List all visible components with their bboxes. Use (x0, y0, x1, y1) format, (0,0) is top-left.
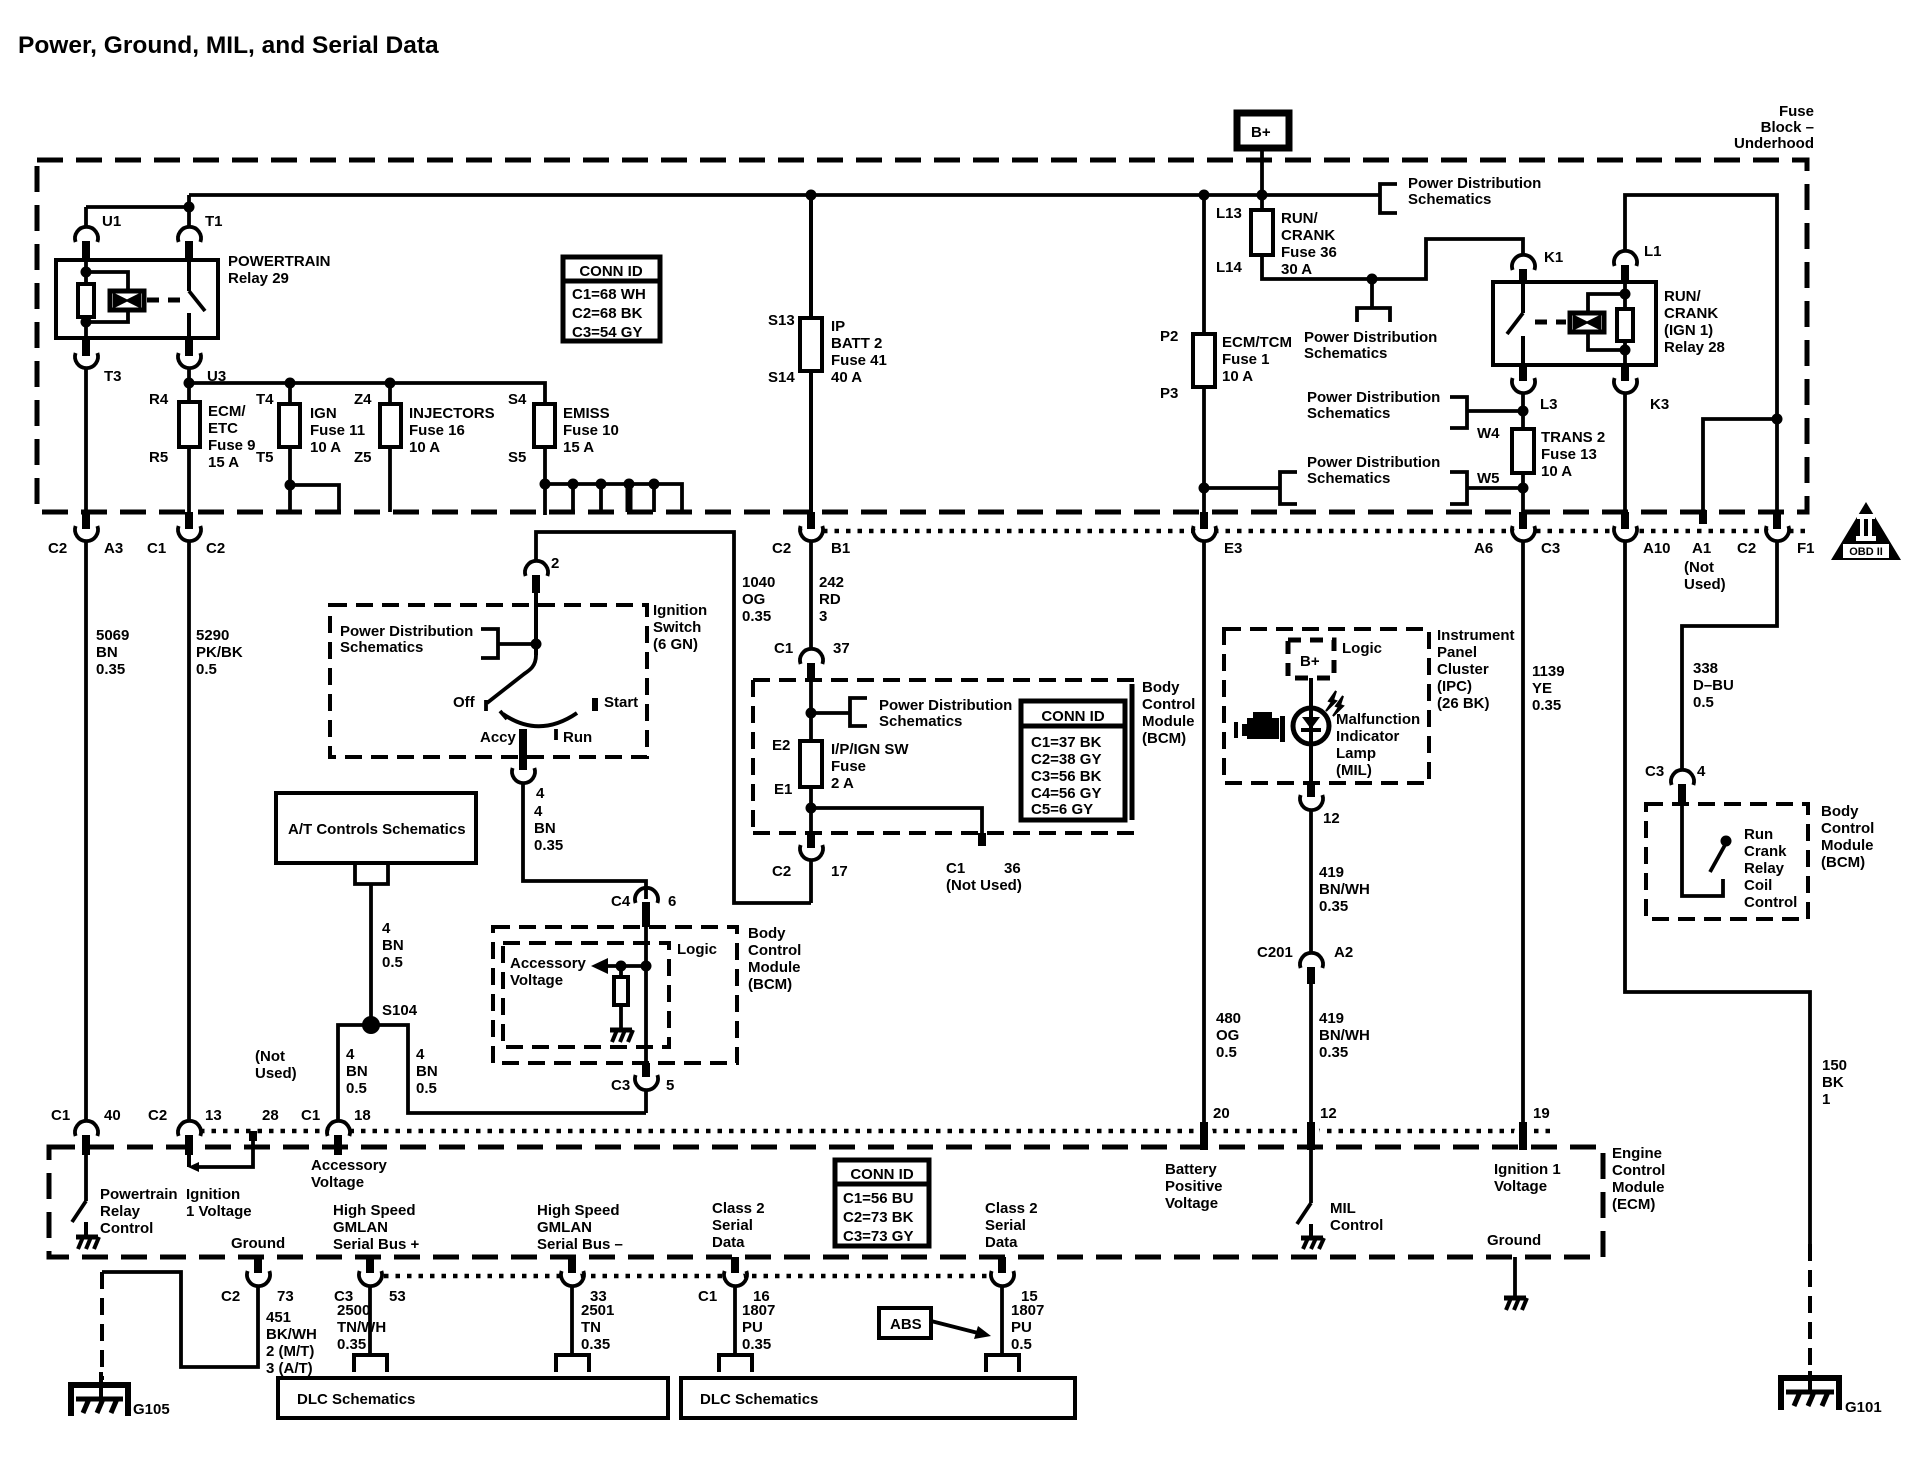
connector C3/5 (642, 1063, 650, 1077)
svg-text:Fuse 10: Fuse 10 (563, 422, 619, 439)
svg-text:PK/BK: PK/BK (196, 644, 243, 661)
IPC dashed box (1224, 629, 1429, 783)
wire T1 drop (187, 195, 191, 228)
svg-text:Power Distribution: Power Distribution (340, 623, 473, 640)
svg-text:High Speed: High Speed (537, 1202, 620, 1219)
wire A10 down to G101 (1625, 540, 1810, 1244)
connector T3 (82, 338, 90, 356)
svg-text:C2=38 GY: C2=38 GY (1031, 751, 1101, 768)
svg-text:37: 37 (833, 640, 850, 657)
svg-text:W4: W4 (1477, 425, 1500, 442)
node S104 (362, 1016, 380, 1034)
relay 28 coil (1570, 313, 1604, 332)
svg-text:Control: Control (100, 1220, 153, 1237)
svg-text:S5: S5 (508, 449, 526, 466)
svg-text:Instrument: Instrument (1437, 627, 1515, 644)
wire A3 down to ECM40 (84, 540, 88, 1122)
svg-text:S13: S13 (768, 312, 795, 329)
connector C1/37 (800, 649, 823, 664)
svg-text:OG: OG (1216, 1027, 1239, 1044)
ground (logic) (610, 1028, 632, 1033)
svg-text:Control: Control (748, 942, 801, 959)
svg-text:Fuse: Fuse (1779, 103, 1814, 120)
svg-text:RUN/: RUN/ (1664, 288, 1701, 305)
MIL control switch (1307, 1122, 1315, 1150)
wire accy down to pin4 (519, 729, 527, 770)
svg-text:20: 20 (1213, 1105, 1230, 1122)
relay 29 actuator dashes (147, 298, 180, 303)
svg-text:0.35: 0.35 (742, 1336, 771, 1353)
BCM logic inner dashed box (503, 943, 669, 1047)
ignition switch lever (487, 655, 536, 703)
wire A/T to S104 (369, 884, 373, 1025)
relay 28 switch (1521, 282, 1525, 313)
svg-text:53: 53 (389, 1288, 406, 1305)
svg-text:0.35: 0.35 (96, 661, 125, 678)
svg-text:DLC Schematics: DLC Schematics (700, 1391, 818, 1408)
svg-text:1 Voltage: 1 Voltage (186, 1203, 252, 1220)
svg-text:BK/WH: BK/WH (266, 1326, 317, 1343)
connector C2/F1 (1773, 512, 1781, 529)
connector K3 (1621, 365, 1629, 381)
connector C2/17 (807, 835, 815, 848)
connector L1 (1614, 251, 1637, 266)
svg-text:0.5: 0.5 (346, 1080, 367, 1097)
relay 29 coil resistor (84, 260, 88, 338)
connector C2/13 (ECM) (178, 1121, 201, 1136)
svg-text:RD: RD (819, 591, 841, 608)
relay 28 RUN/CRANK box (1493, 282, 1656, 365)
wire dashed to G101 (1808, 1244, 1812, 1378)
svg-text:Fuse: Fuse (831, 758, 866, 775)
svg-text:10 A: 10 A (310, 439, 341, 456)
svg-text:Power Distribution: Power Distribution (879, 697, 1012, 714)
ground pin below ECM right (1513, 1257, 1517, 1298)
ABS arrow (931, 1321, 978, 1333)
svg-text:Fuse 16: Fuse 16 (409, 422, 465, 439)
OBD II symbol (1831, 502, 1901, 560)
connector E3 (1200, 512, 1208, 529)
svg-text:CONN ID: CONN ID (579, 263, 643, 280)
svg-text:C1=56 BU: C1=56 BU (843, 1190, 913, 1207)
svg-text:C1: C1 (147, 540, 166, 557)
ECM/TCM fuse 1 wire (1202, 195, 1206, 515)
wire 419 BN/WH upper (1309, 809, 1313, 954)
B+ dashed box (IPC) (1288, 640, 1334, 678)
svg-text:1807: 1807 (742, 1302, 775, 1319)
svg-text:Serial: Serial (985, 1217, 1026, 1234)
ECM dashed box (49, 1147, 1603, 1257)
svg-text:W5: W5 (1477, 470, 1500, 487)
svg-text:C201: C201 (1257, 944, 1293, 961)
svg-text:0.5: 0.5 (382, 954, 403, 971)
engine icon (1234, 712, 1285, 742)
svg-text:L14: L14 (1216, 259, 1243, 276)
wire K3 down to A10 (1623, 392, 1627, 529)
svg-text:1139: 1139 (1532, 663, 1565, 680)
connector C1/C2 (185, 512, 193, 529)
connector L3 (1519, 365, 1527, 381)
svg-text:242: 242 (819, 574, 844, 591)
svg-text:R5: R5 (149, 449, 168, 466)
svg-text:S14: S14 (768, 369, 795, 386)
svg-text:Accessory: Accessory (311, 1157, 388, 1174)
wire B+ to MIL lamp (1309, 678, 1313, 783)
svg-text:Class 2: Class 2 (712, 1200, 765, 1217)
svg-text:S4: S4 (508, 391, 527, 408)
svg-text:Fuse 9: Fuse 9 (208, 437, 256, 454)
svg-text:2: 2 (551, 555, 559, 572)
svg-text:Serial Bus +: Serial Bus + (333, 1236, 420, 1253)
wire 1807 PU 0.5 to DLC (1000, 1285, 1004, 1354)
svg-text:0.5: 0.5 (1011, 1336, 1032, 1353)
svg-text:GMLAN: GMLAN (537, 1219, 592, 1236)
CONN ID box fuseblock (563, 257, 660, 341)
wire through logic box (644, 927, 648, 1063)
svg-text:Underhood: Underhood (1734, 135, 1814, 152)
svg-text:C1: C1 (774, 640, 793, 657)
svg-text:C4=56 GY: C4=56 GY (1031, 785, 1101, 802)
svg-text:C3=54 GY: C3=54 GY (572, 324, 642, 341)
connector A6/C3 (1519, 512, 1527, 529)
svg-text:Serial Bus –: Serial Bus – (537, 1236, 623, 1253)
svg-text:Module: Module (1821, 837, 1874, 854)
svg-text:L13: L13 (1216, 205, 1242, 222)
callout bracket power distribution schematics mid-top (1370, 279, 1374, 308)
svg-text:GMLAN: GMLAN (333, 1219, 388, 1236)
svg-text:Module: Module (1612, 1179, 1665, 1196)
svg-text:17: 17 (831, 863, 848, 880)
svg-text:(MIL): (MIL) (1336, 762, 1372, 779)
svg-text:0.35: 0.35 (742, 608, 771, 625)
svg-text:Module: Module (1142, 713, 1195, 730)
pin 28 jumper to pin 13 (187, 1155, 191, 1167)
dotted DLC boundary (384, 1274, 989, 1279)
wire C2/17 down-left (809, 859, 813, 903)
connector U1 (75, 227, 98, 242)
svg-text:(26 BK): (26 BK) (1437, 695, 1490, 712)
svg-text:A6: A6 (1474, 540, 1493, 557)
svg-text:Schematics: Schematics (1307, 470, 1390, 487)
svg-text:Relay: Relay (1744, 860, 1785, 877)
ABS box (879, 1308, 931, 1338)
start tick (592, 698, 598, 711)
svg-text:G101: G101 (1845, 1399, 1882, 1416)
svg-text:Voltage: Voltage (1494, 1178, 1547, 1195)
wire A1 branch from F1 line (1703, 419, 1777, 512)
A/T box lead bracket (355, 863, 388, 884)
wire F1 down to run/crank coil control (1682, 540, 1777, 771)
svg-text:(IPC): (IPC) (1437, 678, 1472, 695)
svg-text:TN: TN (581, 1319, 601, 1336)
relay 29 POWERTRAIN box (56, 260, 218, 338)
svg-text:Indicator: Indicator (1336, 728, 1400, 745)
svg-text:IGN: IGN (310, 405, 337, 422)
wire fuse36 to K1 (1262, 239, 1523, 279)
relay 29 coil branch (86, 272, 128, 322)
run crank relay coil control BCM box (1646, 804, 1808, 919)
svg-text:C3=73 GY: C3=73 GY (843, 1228, 913, 1245)
svg-text:Relay 29: Relay 29 (228, 270, 289, 287)
svg-text:0.5: 0.5 (416, 1080, 437, 1097)
CONN ID box ECM (835, 1160, 929, 1246)
svg-text:(6 GN): (6 GN) (653, 636, 698, 653)
svg-text:Positive: Positive (1165, 1178, 1223, 1195)
svg-text:36: 36 (1004, 860, 1021, 877)
fuse 11 IGN (288, 383, 292, 512)
connector 15 (998, 1257, 1006, 1273)
svg-text:1807: 1807 (1011, 1302, 1044, 1319)
wire T3 down to A3 (84, 367, 88, 526)
svg-text:ABS: ABS (890, 1316, 922, 1333)
svg-text:Block –: Block – (1761, 119, 1814, 136)
svg-text:3 (A/T): 3 (A/T) (266, 1360, 313, 1377)
svg-text:2501: 2501 (581, 1302, 614, 1319)
svg-text:Run: Run (563, 729, 592, 746)
svg-text:Power, Ground, MIL, and Serial: Power, Ground, MIL, and Serial Data (18, 32, 439, 59)
svg-text:OBD II: OBD II (1849, 546, 1883, 558)
fuse block underhood dashed box (37, 160, 1807, 512)
svg-text:EMISS: EMISS (563, 405, 610, 422)
svg-text:Switch: Switch (653, 619, 701, 636)
svg-text:Ground: Ground (1487, 1232, 1541, 1249)
svg-text:YE: YE (1532, 680, 1552, 697)
svg-text:(Not: (Not (255, 1048, 285, 1065)
svg-text:1: 1 (1822, 1091, 1830, 1108)
svg-text:C2: C2 (48, 540, 67, 557)
svg-text:BN: BN (346, 1063, 368, 1080)
S104 branch wires (338, 1025, 646, 1122)
svg-text:TN/WH: TN/WH (337, 1319, 386, 1336)
svg-text:Engine: Engine (1612, 1145, 1662, 1162)
svg-text:419: 419 (1319, 864, 1344, 881)
svg-text:Logic: Logic (1342, 640, 1382, 657)
TRANS 2 fuse 13 (1512, 429, 1534, 473)
svg-text:C1: C1 (51, 1107, 70, 1124)
wire 2501 to DLC (570, 1285, 574, 1354)
svg-text:(ECM): (ECM) (1612, 1196, 1655, 1213)
svg-text:Body: Body (748, 925, 786, 942)
svg-text:Schematics: Schematics (879, 713, 962, 730)
DLC schematics box 2 (681, 1378, 1075, 1418)
svg-text:6: 6 (668, 893, 676, 910)
svg-text:K3: K3 (1650, 396, 1669, 413)
svg-text:G105: G105 (133, 1401, 170, 1418)
svg-text:13: 13 (205, 1107, 222, 1124)
wire A6 down to ECM19 (1521, 540, 1525, 1122)
svg-text:POWERTRAIN: POWERTRAIN (228, 253, 331, 270)
svg-text:T3: T3 (104, 368, 122, 385)
svg-text:Ignition: Ignition (653, 602, 707, 619)
dotted BCM boundary top (800, 529, 1807, 534)
svg-text:Lamp: Lamp (1336, 745, 1376, 762)
svg-text:C3: C3 (1645, 763, 1664, 780)
svg-text:ETC: ETC (208, 420, 238, 437)
svg-text:C2: C2 (206, 540, 225, 557)
wire pin2 up over to BCM17 (536, 532, 811, 903)
svg-text:PU: PU (1011, 1319, 1032, 1336)
fuse 10 EMISS (543, 447, 547, 515)
svg-text:Data: Data (985, 1234, 1018, 1251)
svg-text:0.35: 0.35 (1319, 1044, 1348, 1061)
svg-text:CRANK: CRANK (1664, 305, 1718, 322)
svg-text:C2: C2 (221, 1288, 240, 1305)
svg-text:0.35: 0.35 (337, 1336, 366, 1353)
svg-text:Logic: Logic (677, 941, 717, 958)
svg-text:T4: T4 (256, 391, 274, 408)
svg-text:0.35: 0.35 (581, 1336, 610, 1353)
svg-text:2 A: 2 A (831, 775, 854, 792)
svg-text:Control: Control (1142, 696, 1195, 713)
svg-text:338: 338 (1693, 660, 1718, 677)
node bus-IPbatt (806, 190, 817, 201)
svg-text:BN/WH: BN/WH (1319, 881, 1370, 898)
connector C3/53 (366, 1257, 374, 1273)
wire B1 down (809, 540, 813, 650)
svg-text:C2: C2 (1737, 540, 1756, 557)
wire E3 down to ECM20 (1202, 540, 1206, 1122)
svg-text:A3: A3 (104, 540, 123, 557)
svg-text:0.5: 0.5 (1216, 1044, 1237, 1061)
connector T1 (178, 227, 201, 242)
svg-text:PU: PU (742, 1319, 763, 1336)
BCM dashed box (I/P fuse) (753, 678, 1134, 682)
node bus-B+ (1257, 190, 1268, 201)
wire 2500 to DLC (368, 1285, 372, 1354)
svg-text:T5: T5 (256, 449, 274, 466)
svg-text:Fuse 36: Fuse 36 (1281, 244, 1337, 261)
svg-text:0.35: 0.35 (534, 837, 563, 854)
main bus wire y=195 (189, 193, 1380, 197)
ground G105 (99, 1372, 103, 1398)
svg-text:Accy: Accy (480, 729, 517, 746)
svg-text:Ignition 1: Ignition 1 (1494, 1161, 1561, 1178)
svg-text:Body: Body (1142, 679, 1180, 696)
svg-text:Ground: Ground (231, 1235, 285, 1252)
relay 28 resistor (1623, 282, 1627, 365)
svg-text:Class 2: Class 2 (985, 1200, 1038, 1217)
powertrain relay control switch (84, 1155, 88, 1201)
ground (powertrain relay control) (76, 1235, 98, 1240)
svg-text:BATT 2: BATT 2 (831, 335, 882, 352)
svg-text:Fuse 1: Fuse 1 (1222, 351, 1270, 368)
connector C1/16 (731, 1257, 739, 1273)
svg-text:4: 4 (1697, 763, 1706, 780)
svg-text:C3=56 BK: C3=56 BK (1031, 768, 1102, 785)
svg-text:1040: 1040 (742, 574, 775, 591)
connector C2/B1 (807, 512, 815, 529)
svg-text:10 A: 10 A (409, 439, 440, 456)
wire 37 into fuse (809, 681, 813, 844)
svg-text:15 A: 15 A (563, 439, 594, 456)
svg-text:OG: OG (742, 591, 765, 608)
svg-text:18: 18 (354, 1107, 371, 1124)
svg-text:ECM/TCM: ECM/TCM (1222, 334, 1292, 351)
svg-text:C1=68 WH: C1=68 WH (572, 286, 646, 303)
svg-text:Power Distribution: Power Distribution (1307, 454, 1440, 471)
wire U1 branch (86, 207, 189, 228)
connector U3 (185, 338, 193, 356)
svg-text:Accessory: Accessory (510, 955, 587, 972)
svg-text:CONN ID: CONN ID (1041, 708, 1105, 725)
fuse 16 INJECTORS (388, 383, 392, 512)
relay 28 actuator dashes (1535, 320, 1566, 325)
fuse bus y=383 (189, 383, 545, 404)
svg-text:150: 150 (1822, 1057, 1847, 1074)
svg-text:C2: C2 (772, 863, 791, 880)
svg-text:4: 4 (382, 920, 391, 937)
svg-text:C1: C1 (698, 1288, 717, 1305)
svg-text:10 A: 10 A (1541, 463, 1572, 480)
svg-text:4: 4 (346, 1046, 355, 1063)
svg-text:0.35: 0.35 (1319, 898, 1348, 915)
svg-text:451: 451 (266, 1309, 291, 1326)
dotted BCM boundary bottom (200, 1129, 1555, 1134)
connector 12 (IPC) (1307, 783, 1315, 797)
svg-text:Body: Body (1821, 803, 1859, 820)
connector 33 (568, 1257, 576, 1273)
connector C1/40 (ECM) (75, 1121, 98, 1136)
svg-text:E2: E2 (772, 737, 790, 754)
svg-text:Panel: Panel (1437, 644, 1477, 661)
svg-text:Schematics: Schematics (340, 639, 423, 656)
svg-text:Control: Control (1330, 1217, 1383, 1234)
wire C3/5 down to S104 path (644, 1089, 648, 1113)
svg-text:(IGN 1): (IGN 1) (1664, 322, 1713, 339)
svg-text:I/P/IGN SW: I/P/IGN SW (831, 741, 909, 758)
svg-text:Power Distribution: Power Distribution (1307, 389, 1440, 406)
svg-text:28: 28 (262, 1107, 279, 1124)
svg-text:Off: Off (453, 694, 476, 711)
lightning arrows (1326, 691, 1336, 711)
wire pin4 to BCM C4/6 (523, 782, 646, 899)
connector K1 (1512, 255, 1535, 270)
svg-text:C5=6 GY: C5=6 GY (1031, 801, 1093, 818)
svg-text:5069: 5069 (96, 627, 129, 644)
svg-text:CRANK: CRANK (1281, 227, 1335, 244)
svg-text:C2: C2 (772, 540, 791, 557)
svg-text:C3: C3 (611, 1077, 630, 1094)
svg-text:73: 73 (277, 1288, 294, 1305)
svg-text:419: 419 (1319, 1010, 1344, 1027)
svg-text:Start: Start (604, 694, 638, 711)
svg-text:30 A: 30 A (1281, 261, 1312, 278)
svg-text:C1: C1 (946, 860, 965, 877)
connector C2/73 (ground pin) (254, 1257, 262, 1273)
svg-text:A2: A2 (1334, 944, 1353, 961)
svg-text:C1: C1 (301, 1107, 320, 1124)
svg-text:DLC Schematics: DLC Schematics (297, 1391, 415, 1408)
fuse 9 ECM/ETC (179, 402, 200, 447)
svg-text:BK: BK (1822, 1074, 1844, 1091)
svg-text:Malfunction: Malfunction (1336, 711, 1420, 728)
svg-text:BN/WH: BN/WH (1319, 1027, 1370, 1044)
svg-text:BN: BN (534, 820, 556, 837)
connector 4 (512, 768, 535, 783)
svg-text:High Speed: High Speed (333, 1202, 416, 1219)
rotary arc (503, 713, 577, 726)
run crank coil control switch (1682, 803, 1723, 896)
connector 2 (ignition switch) (525, 561, 548, 576)
fuse I/P/IGN SW 2A (800, 741, 822, 787)
svg-text:L1: L1 (1644, 243, 1662, 260)
svg-text:B+: B+ (1300, 653, 1320, 670)
svg-text:S104: S104 (382, 1002, 418, 1019)
A/T controls schematics box (276, 793, 476, 863)
svg-text:TRANS 2: TRANS 2 (1541, 429, 1605, 446)
svg-text:Power Distribution: Power Distribution (1408, 175, 1541, 192)
DLC schematics box 1 (278, 1378, 668, 1418)
